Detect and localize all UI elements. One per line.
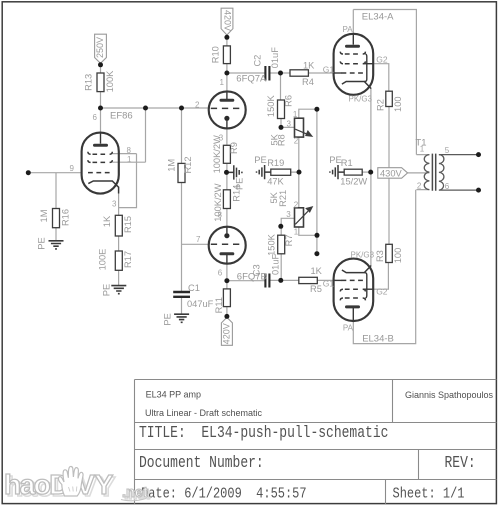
svg-text:EF86: EF86 <box>110 111 133 122</box>
svg-text:PE: PE <box>235 178 245 190</box>
svg-text:Date: 6/1/2009 4:55:57: Date: 6/1/2009 4:55:57 <box>141 486 307 503</box>
svg-text:R5: R5 <box>310 284 322 294</box>
svg-text:1K: 1K <box>311 266 323 276</box>
svg-text:G1: G1 <box>323 65 335 75</box>
svg-text:1: 1 <box>127 155 132 164</box>
svg-text:8: 8 <box>127 146 132 155</box>
svg-text:01uF: 01uF <box>271 253 281 275</box>
svg-text:G2: G2 <box>376 55 388 65</box>
svg-text:2: 2 <box>195 100 200 109</box>
svg-text:1M: 1M <box>39 210 49 223</box>
svg-text:PE: PE <box>36 237 46 249</box>
svg-text:R21: R21 <box>278 190 288 207</box>
svg-text:1M: 1M <box>167 159 177 172</box>
svg-text:3: 3 <box>219 133 224 142</box>
svg-text:R6: R6 <box>284 95 294 107</box>
svg-text:G1: G1 <box>323 279 335 289</box>
svg-text:C1: C1 <box>188 283 200 293</box>
svg-text:2: 2 <box>417 182 422 191</box>
svg-text:6: 6 <box>93 113 98 122</box>
svg-text:100K: 100K <box>105 70 115 93</box>
svg-text:R19: R19 <box>267 158 284 168</box>
svg-text:G2: G2 <box>376 287 388 297</box>
svg-text:PE: PE <box>101 284 111 296</box>
svg-text:PE: PE <box>254 155 266 165</box>
svg-text:PE: PE <box>163 313 173 325</box>
svg-text:R16: R16 <box>60 209 70 226</box>
svg-text:100: 100 <box>393 96 403 112</box>
svg-text:R7: R7 <box>284 234 294 246</box>
svg-text:C2: C2 <box>253 55 263 67</box>
svg-text:R3: R3 <box>375 250 385 262</box>
svg-text:2: 2 <box>294 200 299 209</box>
svg-text:PK/G3: PK/G3 <box>351 250 375 259</box>
svg-text:01uF: 01uF <box>270 47 280 69</box>
svg-text:47K: 47K <box>267 177 284 187</box>
svg-text:haoD: haoD <box>4 469 69 500</box>
svg-text:R17: R17 <box>123 251 133 268</box>
svg-text:150K: 150K <box>266 95 276 118</box>
svg-text:430V: 430V <box>380 168 403 178</box>
svg-text:420V: 420V <box>221 323 231 344</box>
svg-text:2: 2 <box>294 137 299 146</box>
svg-text:9: 9 <box>70 164 75 173</box>
svg-text:420V: 420V <box>223 10 233 31</box>
svg-text:R10: R10 <box>211 46 221 63</box>
svg-text:6: 6 <box>445 182 450 191</box>
svg-text:R4: R4 <box>302 77 314 87</box>
svg-text:250V: 250V <box>95 37 105 58</box>
svg-text:1: 1 <box>420 145 425 154</box>
svg-text:PA: PA <box>343 323 354 332</box>
svg-text:1K: 1K <box>303 61 315 71</box>
svg-text:R9: R9 <box>229 142 239 154</box>
svg-text:7: 7 <box>196 235 201 244</box>
svg-text:R2: R2 <box>375 99 385 111</box>
svg-text:15/2W: 15/2W <box>340 177 367 187</box>
svg-text:Giannis Spathopoulos: Giannis Spathopoulos <box>405 390 494 400</box>
svg-text:Sheet: 1/1: Sheet: 1/1 <box>393 486 465 503</box>
svg-text:6FQ7A: 6FQ7A <box>236 73 267 84</box>
svg-text:EL34 PP amp: EL34 PP amp <box>146 390 201 400</box>
svg-text:R1: R1 <box>341 158 353 168</box>
svg-text:6FQ7B: 6FQ7B <box>237 271 267 282</box>
svg-text:100: 100 <box>393 248 403 264</box>
svg-text:8: 8 <box>218 211 223 220</box>
svg-text:100E: 100E <box>97 249 107 271</box>
svg-text:1: 1 <box>293 110 298 119</box>
svg-text:R12: R12 <box>183 156 193 173</box>
svg-text:EL34-A: EL34-A <box>362 11 394 22</box>
svg-text:PA: PA <box>343 25 354 34</box>
svg-text:EL34-B: EL34-B <box>362 333 394 344</box>
svg-text:1: 1 <box>220 78 225 87</box>
svg-text:R8: R8 <box>277 134 287 146</box>
svg-text:Document Number:: Document Number: <box>139 452 264 472</box>
svg-text:Ultra Linear - Draft schematic: Ultra Linear - Draft schematic <box>145 408 263 418</box>
svg-text:3: 3 <box>286 210 291 219</box>
svg-text:R13: R13 <box>83 74 93 91</box>
svg-text:6: 6 <box>218 269 223 278</box>
svg-text:5: 5 <box>445 146 450 155</box>
svg-text:150K: 150K <box>266 233 276 256</box>
svg-text:047uF: 047uF <box>187 299 214 309</box>
svg-text:REV:: REV: <box>445 452 476 472</box>
svg-text:R15: R15 <box>123 216 133 233</box>
svg-text:R11: R11 <box>214 297 224 313</box>
svg-text:3: 3 <box>287 120 292 129</box>
svg-text:PK/G3: PK/G3 <box>349 94 373 103</box>
svg-text:TITLE: EL34-push-pull-schemat: TITLE: EL34-push-pull-schematic <box>139 422 388 442</box>
svg-text:3: 3 <box>112 199 117 208</box>
svg-text:1: 1 <box>294 227 299 236</box>
svg-text:1K: 1K <box>102 215 112 227</box>
